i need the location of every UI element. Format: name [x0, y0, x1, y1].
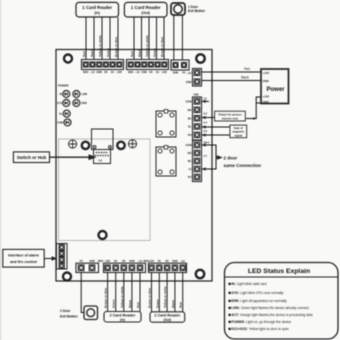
- svg-text:DO1+DO2: Yellow light on,door: DO1+DO2: Yellow light on,door is open: [231, 327, 289, 331]
- svg-text:Green: Green: [155, 299, 159, 308]
- svg-text:GND: GND: [141, 71, 147, 74]
- svg-text:electric lock: electric lock: [222, 117, 239, 121]
- svg-text:GND: GND: [96, 71, 102, 74]
- svg-text:(In): (In): [120, 318, 125, 322]
- svg-text:CN6: CN6: [193, 94, 199, 97]
- svg-text:(In): (In): [94, 11, 100, 15]
- svg-text:1 Card Reader: 1 Card Reader: [131, 5, 161, 10]
- svg-text:(Out): (Out): [141, 11, 150, 15]
- svg-text:LED: LED: [149, 260, 154, 263]
- svg-text:PU: PU: [188, 175, 192, 179]
- svg-text:Red: Red: [136, 302, 140, 308]
- svg-text:Black: Black: [90, 49, 94, 57]
- svg-text:TX: TX: [59, 113, 63, 116]
- svg-text:Brown or blue: Brown or blue: [160, 37, 164, 57]
- svg-text:NO: NO: [188, 108, 192, 112]
- svg-text:Red: Red: [179, 302, 183, 308]
- svg-text:GND: GND: [89, 260, 95, 263]
- svg-text:Black: Black: [241, 76, 249, 80]
- svg-text:1 8: 1 8: [98, 159, 102, 163]
- svg-text:(Out): (Out): [163, 318, 171, 322]
- svg-text:Red: Red: [82, 51, 86, 57]
- svg-text:WD1: WD1: [83, 71, 89, 74]
- svg-text:PH: PH: [188, 133, 192, 137]
- svg-text:ERR: Light off,apparatus run n: ERR: Light off,apparatus run normally: [231, 299, 287, 303]
- svg-text:magnetic: magnetic: [232, 130, 244, 134]
- svg-text:WD3: WD3: [143, 260, 149, 263]
- svg-text:Black: Black: [138, 49, 142, 57]
- svg-text:signal: signal: [234, 133, 242, 137]
- svg-text:and fire control: and fire control: [10, 260, 37, 264]
- svg-text:Yellow or white: Yellow or white: [163, 286, 167, 308]
- svg-text:+12: +12: [138, 260, 143, 263]
- svg-text:WD1: WD1: [128, 71, 134, 74]
- svg-text:Brown or blue: Brown or blue: [114, 37, 118, 57]
- svg-text:Yellow or white: Yellow or white: [98, 35, 102, 57]
- svg-text:POWER: Light on, go through th: POWER: Light on, go through the device: [231, 320, 291, 324]
- svg-text:GND: GND: [172, 260, 178, 263]
- svg-text:NO: NO: [188, 151, 192, 155]
- svg-text:Exit Button: Exit Button: [60, 315, 78, 319]
- svg-text:Gate of: Gate of: [234, 126, 243, 130]
- svg-text:+12V: +12V: [263, 95, 270, 99]
- svg-text:2 Card Reader: 2 Card Reader: [110, 313, 136, 317]
- svg-text:Black: Black: [128, 300, 132, 308]
- svg-text:Yellow or white: Yellow or white: [145, 35, 149, 57]
- svg-text:+12: +12: [187, 71, 192, 75]
- svg-text:IN: Light blink valid card: IN: Light blink valid card: [231, 282, 266, 286]
- svg-text:1 Card Reader: 1 Card Reader: [82, 5, 112, 10]
- svg-text:2 Card Reader: 2 Card Reader: [154, 314, 180, 318]
- svg-text:LED Status Explain: LED Status Explain: [248, 268, 310, 275]
- svg-text:2 Door: 2 Door: [60, 309, 71, 313]
- svg-text:2 door: 2 door: [224, 156, 238, 161]
- svg-text:POWER: POWER: [58, 84, 69, 88]
- svg-text:ERR: ERR: [82, 102, 87, 105]
- svg-text:Green: Green: [153, 48, 157, 57]
- svg-text:NC: NC: [188, 116, 192, 120]
- svg-text:+12: +12: [181, 260, 186, 263]
- svg-text:COM: COM: [57, 122, 63, 125]
- svg-text:Brown or blue: Brown or blue: [148, 288, 152, 308]
- svg-text:GL: GL: [188, 125, 192, 129]
- svg-text:SYS: SYS: [57, 102, 62, 105]
- svg-text:LINK: LINK: [82, 93, 88, 96]
- svg-text:GND: GND: [129, 260, 135, 263]
- svg-text:COM: COM: [185, 100, 191, 104]
- svg-text:LED: LED: [105, 260, 110, 263]
- svg-text:+12: +12: [90, 71, 95, 74]
- svg-text:Yellow or white: Yellow or white: [120, 286, 124, 308]
- svg-text:same Connection: same Connection: [224, 163, 262, 168]
- svg-text:+12V: +12V: [263, 71, 270, 75]
- svg-text:WD2: WD2: [98, 260, 104, 263]
- svg-text:GND: GND: [263, 79, 269, 83]
- svg-text:Black: Black: [171, 300, 175, 308]
- svg-text:COM: COM: [185, 143, 191, 147]
- svg-text:LED: LED: [117, 71, 122, 74]
- svg-text:Red: Red: [130, 51, 134, 57]
- svg-text:LED: LED: [162, 71, 167, 74]
- svg-text:+12: +12: [135, 71, 140, 74]
- svg-text:Switch or Hub: Switch or Hub: [17, 155, 47, 160]
- svg-text:Red: Red: [244, 67, 250, 71]
- svg-text:NC: NC: [188, 159, 192, 163]
- svg-text:GND: GND: [173, 72, 179, 75]
- svg-text:Brown or blue: Brown or blue: [104, 288, 108, 308]
- svg-text:IN: IN: [60, 93, 63, 96]
- svg-text:Green: Green: [112, 299, 116, 308]
- svg-text:SYS: Light blink CPU runs norm: SYS: Light blink CPU runs normally: [231, 291, 283, 295]
- svg-text:Exit Button: Exit Button: [188, 9, 205, 13]
- svg-text:LINK: Green light flashes the: LINK: Green light flashes the device alr…: [231, 306, 308, 310]
- svg-text:GND: GND: [186, 80, 192, 84]
- svg-text:Power: Power: [267, 87, 286, 93]
- svg-text:Interface of alarm: Interface of alarm: [8, 254, 39, 258]
- svg-text:ACT: Orange light flashes,the: ACT: Orange light flashes,the device is …: [231, 313, 312, 317]
- svg-text:Green: Green: [106, 48, 110, 57]
- svg-text:GND: GND: [263, 100, 269, 104]
